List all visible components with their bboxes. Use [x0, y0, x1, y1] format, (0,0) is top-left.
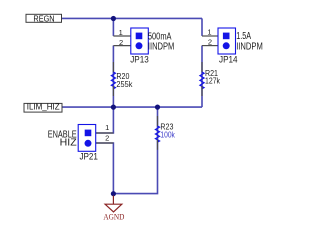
JP14 body outline [218, 28, 236, 54]
wire REGN rail down to JP14 pin 1 [201, 18, 203, 36]
wire REGN rail down to JP13 pin 1 [112, 18, 114, 36]
wire ILIM_HIZ rail [62, 106, 202, 108]
svg-text:1.5A: 1.5A [236, 31, 251, 42]
junction ILIM_HIZ rail / R23 [155, 105, 160, 110]
JP13 pin 2 lead [113, 45, 130, 47]
JP21 square pad pin 1 [85, 130, 92, 137]
junction REGN rail / JP13 pin 1 [111, 16, 116, 21]
AGND stem [112, 196, 114, 205]
JP13 square pad pin 1 [136, 33, 143, 40]
svg-text:IINDPM: IINDPM [148, 42, 174, 53]
ground AGND [103, 196, 124, 222]
svg-text:100k: 100k [160, 131, 175, 140]
svg-text:IINDPM: IINDPM [236, 41, 263, 52]
R21 bottom lead [201, 86, 203, 96]
JP21 pin 2 lead [96, 142, 114, 144]
R20 bottom lead [112, 86, 114, 96]
JP13 round pad pin 2 [136, 42, 143, 49]
net label REGN [26, 14, 62, 23]
resistor R20 [111, 62, 132, 96]
jumper JP21 [48, 123, 114, 161]
svg-text:1: 1 [105, 123, 109, 132]
JP21 pin 1 lead [96, 132, 114, 134]
svg-text:JP14: JP14 [219, 55, 238, 65]
svg-text:REGN: REGN [33, 14, 54, 23]
wire REGN top rail [62, 17, 203, 19]
svg-text:HIZ: HIZ [60, 137, 77, 148]
resistor R21 [200, 62, 220, 96]
svg-text:1: 1 [119, 28, 123, 37]
junction ILIM_HIZ rail / R20 / JP21 pin 1 [111, 105, 116, 110]
resistor R23 [155, 116, 175, 150]
svg-text:AGND: AGND [103, 213, 124, 222]
JP14 pin 1 lead [202, 35, 218, 37]
AGND triangle [105, 204, 122, 212]
junction AGND rail [111, 191, 116, 196]
wire JP21 pin 2 down to AGND rail [96, 143, 114, 194]
wire R23 bottom to AGND rail [113, 107, 157, 194]
net label ILIM_HIZ [24, 103, 62, 113]
svg-text:1: 1 [207, 27, 211, 36]
svg-text:2: 2 [119, 38, 123, 47]
svg-text:127k: 127k [205, 77, 220, 86]
JP21 body outline [78, 125, 96, 152]
JP13 body outline [131, 28, 149, 54]
JP14 pin 2 lead [202, 45, 218, 47]
R20 zigzag body [111, 72, 115, 89]
svg-text:2: 2 [208, 37, 212, 46]
R21 top lead [201, 62, 203, 72]
R20 top lead [112, 62, 114, 72]
svg-text:JP13: JP13 [130, 55, 149, 65]
JP13 pin 1 lead [113, 35, 130, 37]
svg-text:JP21: JP21 [79, 152, 98, 162]
wire ILIM_HIZ rail down to JP21 pin 1 [96, 107, 114, 133]
JP14 square pad pin 1 [223, 33, 230, 40]
jumper JP14 [202, 27, 263, 64]
svg-text:255k: 255k [116, 80, 132, 89]
JP14 round pad pin 2 [223, 42, 230, 49]
R21 zigzag body [200, 72, 204, 89]
jumper JP13 [113, 28, 174, 65]
svg-text:ILIM_HIZ: ILIM_HIZ [27, 103, 60, 112]
svg-text:2: 2 [105, 134, 109, 143]
wire JP13 pin 2 through R20 to ILIM_HIZ rail [112, 46, 114, 108]
JP21 round pad pin 2 [85, 140, 92, 147]
wire JP14 pin 2 through R21 to ILIM_HIZ rail [201, 46, 203, 108]
R23 top lead [157, 116, 159, 126]
R23 bottom lead [157, 140, 159, 150]
R23 zigzag body [155, 126, 159, 142]
